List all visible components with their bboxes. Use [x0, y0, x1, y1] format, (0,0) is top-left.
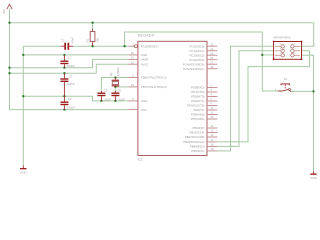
wire +5V vertical rail	[9, 23, 11, 110]
svg-text:PC5(ADC5/SCL): PC5(ADC5/SCL)	[183, 67, 204, 71]
pin number 22	[131, 51, 134, 55]
svg-text:23: 23	[210, 42, 213, 46]
pin name AREF	[141, 58, 149, 62]
pin 1 stub (IC1 PC6(/RESET))	[128, 45, 137, 48]
pin name GND	[141, 53, 148, 57]
capacitor C5	[97, 91, 105, 101]
pin number 16	[210, 133, 213, 137]
pin number 12	[210, 111, 213, 115]
wire ISP pin3 to PB4	[217, 51, 273, 147]
label Q1	[109, 72, 113, 76]
capacitor C6	[111, 91, 119, 101]
svg-text:C1: C1	[67, 56, 71, 60]
pin number 26	[210, 56, 213, 60]
ISP pad 5	[275, 54, 284, 57]
svg-text:GND: GND	[20, 170, 26, 174]
svg-text:R1: R1	[86, 38, 90, 42]
pin 3 stub (IC1 PD1(TXD))	[207, 91, 217, 93]
label C3	[69, 74, 73, 78]
pin 17 stub (IC1 PB3(MOSI/OC2))	[207, 141, 217, 143]
pin name PC4(ADC4/SDA)	[183, 62, 205, 66]
label AVR-ISP-6POL	[273, 36, 291, 40]
value 100nF of C1	[67, 64, 75, 68]
pin name PD7(AIN1)	[191, 117, 205, 121]
crystal Q1	[112, 78, 120, 87]
pin name PC3(ADC3)	[189, 58, 204, 62]
svg-text:PB1(OC1A): PB1(OC1A)	[189, 131, 204, 135]
pin name PC2(ADC2)	[189, 53, 204, 57]
svg-text:18: 18	[210, 143, 213, 147]
svg-text:10k: 10k	[95, 37, 99, 42]
pin name PD2(INT0)	[191, 95, 205, 99]
pin number 2 (ISP)	[294, 44, 296, 46]
wire VCC line to IC1 pin 7	[10, 109, 129, 111]
svg-text:14: 14	[210, 124, 213, 128]
svg-text:47uF: 47uF	[70, 37, 74, 44]
svg-text:4: 4	[210, 93, 212, 97]
value 10k of R1	[95, 37, 99, 42]
svg-text:PB0(ICP): PB0(ICP)	[192, 126, 204, 130]
pin name PB7(XTAL2/TOSC2)	[141, 85, 167, 89]
pin number 14	[210, 124, 213, 128]
ISP pad 4	[291, 49, 300, 52]
svg-text:AREF: AREF	[141, 58, 149, 62]
resistor R1	[90, 28, 95, 46]
pin 12 stub (IC1 PD6(AIN0))	[207, 114, 217, 116]
svg-text:100nF: 100nF	[67, 64, 75, 68]
svg-text:PD1(TXD): PD1(TXD)	[191, 90, 204, 94]
label MEGA8-P	[138, 34, 155, 38]
pin name PC6(/RESET)	[141, 44, 159, 48]
svg-text:PC2(ADC2): PC2(ADC2)	[189, 53, 204, 57]
pin name PC1(ADC1)	[189, 49, 204, 53]
svg-text:27: 27	[210, 60, 213, 64]
pin name PC0(ADC0)	[189, 44, 204, 48]
svg-text:PD0(RXD): PD0(RXD)	[191, 86, 204, 90]
pin number 2	[210, 84, 212, 88]
pin name VCC	[141, 108, 148, 112]
pin name PB3(MOSI/OC2)	[183, 140, 204, 144]
pin number 19	[210, 147, 213, 151]
node C2 bottom on VCC line	[63, 108, 65, 110]
svg-text:GND: GND	[141, 53, 148, 57]
capacitor C2	[60, 96, 68, 109]
svg-text:26: 26	[210, 56, 213, 60]
wire +5V to ISP pin2	[302, 23, 314, 47]
label C5	[104, 88, 108, 92]
pin number 2 (S1)	[291, 89, 293, 93]
pin number 3	[210, 88, 212, 92]
pin 23 stub (IC1 PC0(ADC0))	[207, 45, 217, 47]
label C4	[61, 38, 65, 42]
svg-text:MEGA8-P: MEGA8-P	[138, 34, 155, 38]
svg-text:13: 13	[210, 115, 213, 119]
svg-text:PB7(XTAL2/TOSC2): PB7(XTAL2/TOSC2)	[141, 85, 167, 89]
node reset / ISP pin5	[261, 54, 263, 56]
capacitor C4	[61, 43, 73, 50]
svg-text:GND: GND	[310, 176, 316, 180]
wire reset line C4-to-pin1	[73, 45, 128, 47]
label S1	[284, 77, 288, 81]
svg-text:7: 7	[132, 106, 134, 110]
svg-text:PB5(SCK): PB5(SCK)	[191, 149, 204, 153]
capacitor C3	[60, 73, 68, 96]
pin name PD0(RXD)	[191, 86, 204, 90]
ISP pad 6	[291, 54, 300, 57]
wire +5V top distribution line	[10, 22, 314, 24]
pin name PC5(ADC5/SCL)	[183, 67, 204, 71]
wire GND vertical rail	[22, 46, 24, 165]
pin number 4 (ISP)	[294, 48, 296, 50]
value 100nF of C3	[67, 82, 75, 86]
pin 19 stub (IC1 PB5(SCK))	[207, 150, 217, 152]
pin number 21	[131, 56, 134, 60]
label IC1	[138, 158, 143, 162]
pin number 13	[210, 115, 213, 119]
pin number 6	[210, 102, 212, 106]
value 22pF of C5	[104, 97, 111, 101]
wire GND to IC1 pin 8	[23, 96, 128, 101]
ground symbol GND (bottom right)	[310, 171, 316, 180]
svg-text:AVR-ISP-6POL: AVR-ISP-6POL	[273, 36, 291, 40]
svg-text:2: 2	[291, 89, 293, 93]
wire XTAL2 pin10 to crystal	[115, 86, 128, 88]
pin 10 stub (IC1 PB7(XTAL2/TOSC2))	[128, 86, 138, 88]
pin 24 stub (IC1 PC1(ADC1))	[207, 50, 217, 52]
wire crystal to C6	[114, 87, 116, 91]
wire AVCC line	[10, 64, 129, 73]
label C6	[117, 88, 121, 92]
pin number 20	[131, 60, 134, 64]
value 100nF of C2	[67, 105, 75, 109]
svg-text:PD7(AIN1): PD7(AIN1)	[191, 117, 205, 121]
svg-text:6: 6	[210, 102, 212, 106]
wire S1 pin2 to GND line	[291, 90, 313, 92]
pin number 18	[210, 143, 213, 147]
svg-text:Q1: Q1	[109, 72, 113, 76]
pin 5 stub (IC1 PD3(INT1))	[207, 100, 217, 102]
pin number 7	[132, 106, 134, 110]
value 47uF of C4	[70, 37, 74, 44]
svg-text:PD4(XCK/T0): PD4(XCK/T0)	[187, 104, 204, 108]
svg-text:GND: GND	[141, 99, 148, 103]
svg-text:PD2(INT0): PD2(INT0)	[191, 95, 205, 99]
pin 11 stub (IC1 PD5(T1))	[207, 109, 217, 111]
svg-text:PC6(/RESET): PC6(/RESET)	[141, 44, 159, 48]
node R1 bottom on reset line	[91, 45, 93, 47]
svg-text:PD5(T1): PD5(T1)	[194, 108, 205, 112]
pin number 1	[132, 42, 134, 46]
value 16MHz of Q1	[116, 66, 120, 76]
wire reset line GND-to-C4	[23, 45, 60, 47]
svg-text:C5: C5	[104, 88, 108, 92]
node R1 top on +5V line	[91, 22, 93, 24]
svg-text:20: 20	[131, 60, 134, 64]
node S1 pin2 / GND line	[312, 90, 314, 92]
node C1 bottom	[63, 67, 65, 69]
svg-text:9: 9	[132, 74, 134, 78]
pin number 17	[210, 138, 213, 142]
wire reset to ISP pin5 and S1	[125, 32, 278, 91]
node C3/C2 junction	[63, 95, 65, 97]
svg-text:PD6(AIN0): PD6(AIN0)	[191, 113, 205, 117]
pin number 10	[131, 83, 134, 87]
pin number 8	[132, 97, 134, 101]
node +5V rail / top line	[8, 22, 10, 24]
svg-text:+5V: +5V	[2, 8, 6, 15]
pin number 15	[210, 129, 213, 133]
pin number 11	[210, 106, 213, 110]
svg-text:IC1: IC1	[138, 158, 143, 162]
pin name AVCC	[141, 62, 150, 66]
svg-text:16MHz: 16MHz	[116, 66, 120, 76]
pin 9 stub (IC1 PB6(XTAL1/TOSC1))	[128, 77, 138, 79]
svg-text:PB3(MOSI/OC2): PB3(MOSI/OC2)	[183, 140, 204, 144]
pin 18 stub (IC1 PB4(MISO))	[207, 145, 217, 147]
switch S1 push button	[278, 84, 292, 92]
ISP pad 1	[275, 45, 284, 48]
svg-text:17: 17	[210, 138, 213, 142]
pin 15 stub (IC1 PB1(OC1A))	[207, 132, 217, 134]
pin 28 stub (IC1 PC5(ADC5/SCL))	[207, 68, 217, 70]
svg-text:28: 28	[210, 65, 213, 69]
wire ISP pin6 to GND	[302, 55, 314, 171]
svg-text:PC1(ADC1): PC1(ADC1)	[189, 49, 204, 53]
node C5 bottom on GND line	[100, 100, 102, 102]
svg-text:PC0(ADC0): PC0(ADC0)	[189, 44, 204, 48]
wire AREF line	[10, 59, 129, 67]
svg-text:C3: C3	[69, 74, 73, 78]
svg-text:5: 5	[210, 97, 212, 101]
wire R1 top to +5V	[92, 23, 94, 29]
svg-text:C4: C4	[61, 38, 65, 42]
pin 4 stub (IC1 PD2(INT0))	[207, 96, 217, 98]
svg-text:PC3(ADC3): PC3(ADC3)	[189, 58, 204, 62]
pin 27 stub (IC1 PC4(ADC4/SDA))	[207, 63, 217, 65]
svg-text:22pF: 22pF	[104, 97, 111, 101]
pin number 1 (ISP)	[280, 44, 282, 46]
pin 25 stub (IC1 PC2(ADC2))	[207, 54, 217, 56]
pin 20 stub (IC1 AVCC)	[128, 63, 138, 65]
capacitor C1	[60, 55, 68, 68]
pin 26 stub (IC1 PC3(ADC3))	[207, 59, 217, 61]
ic IC1 MEGA8-P body	[138, 41, 207, 155]
wire GND to IC1 pin 22	[23, 54, 128, 56]
svg-text:3: 3	[210, 88, 212, 92]
pin 16 stub (IC1 PB2(SS/OC1B))	[207, 136, 217, 138]
pin name PD4(XCK/T0)	[187, 104, 204, 108]
node crystal top	[114, 76, 116, 78]
svg-text:PC4(ADC4/SDA): PC4(ADC4/SDA)	[183, 62, 205, 66]
node C3 top	[63, 72, 65, 74]
value 22pF of C6	[118, 97, 125, 101]
svg-text:19: 19	[210, 147, 213, 151]
node GND rail / pin22 line	[22, 54, 24, 56]
pin number 3 (ISP)	[280, 48, 282, 50]
svg-text:15: 15	[210, 129, 213, 133]
label C1	[67, 56, 71, 60]
label C2	[68, 97, 72, 101]
connector SV1 AVR-ISP-6POL body	[273, 41, 303, 61]
pin name PD6(AIN0)	[191, 113, 205, 117]
svg-text:12: 12	[210, 111, 213, 115]
pin number 6 (ISP)	[294, 53, 296, 55]
svg-text:100nF: 100nF	[67, 105, 75, 109]
pin number 27	[210, 60, 213, 64]
pin name PB5(SCK)	[191, 149, 204, 153]
pin name PB0(ICP)	[192, 126, 204, 130]
svg-text:8: 8	[132, 97, 134, 101]
svg-text:10: 10	[131, 83, 134, 87]
svg-text:VCC: VCC	[141, 108, 148, 112]
svg-text:22: 22	[131, 51, 134, 55]
wire ISP pin4 to PB3	[217, 51, 309, 142]
pin name PD5(T1)	[194, 108, 205, 112]
pin number 5	[210, 97, 212, 101]
ground symbol GND (bottom left)	[20, 165, 26, 174]
pin name PD1(TXD)	[191, 90, 204, 94]
svg-text:PB2(SS/OC1B): PB2(SS/OC1B)	[185, 135, 205, 139]
pin name GND	[141, 99, 148, 103]
pin number 25	[210, 51, 213, 55]
node +5V rail / AREF line	[8, 67, 10, 69]
pin name PB6(XTAL1/TOSC1)	[141, 76, 167, 80]
pin 14 stub (IC1 PB0(ICP))	[207, 127, 217, 129]
pin 2 stub (IC1 PD0(RXD))	[207, 87, 217, 89]
pin name PB1(OC1A)	[189, 131, 204, 135]
pin 7 stub (IC1 VCC)	[128, 109, 138, 111]
supply +5V symbol	[2, 4, 12, 23]
wire XTAL1 pin9 to crystal	[101, 77, 128, 79]
pin 8 stub (IC1 GND)	[128, 100, 138, 102]
wire ISP pin5 stub	[262, 54, 273, 56]
pin name PD3(INT1)	[191, 99, 205, 103]
pin 22 stub (IC1 GND)	[128, 54, 138, 56]
svg-text:24: 24	[210, 47, 213, 51]
pin number 23	[210, 42, 213, 46]
node reset line branch	[123, 45, 125, 47]
ISP pad 2	[291, 45, 300, 48]
pin number 4	[210, 93, 212, 97]
svg-text:2: 2	[210, 84, 212, 88]
node C1 top	[63, 54, 65, 56]
label R1	[86, 38, 90, 42]
svg-text:21: 21	[131, 56, 134, 60]
node C6 bottom on GND line	[114, 100, 116, 102]
svg-text:AVCC: AVCC	[141, 62, 150, 66]
svg-text:11: 11	[210, 106, 213, 110]
svg-text:C6: C6	[117, 88, 121, 92]
svg-text:C2: C2	[68, 97, 72, 101]
pin 6 stub (IC1 PD4(XCK/T0))	[207, 105, 217, 107]
svg-text:1: 1	[132, 42, 134, 46]
node +5V rail / AVCC line	[8, 72, 10, 74]
pin 21 stub (IC1 AREF)	[128, 58, 138, 60]
pin name PB2(SS/OC1B)	[185, 135, 205, 139]
pin number 9	[132, 74, 134, 78]
svg-text:S1: S1	[284, 77, 288, 81]
svg-text:22pF: 22pF	[118, 97, 125, 101]
svg-text:16: 16	[210, 133, 213, 137]
node crystal bottom	[114, 86, 116, 88]
svg-text:PB4(MISO): PB4(MISO)	[190, 145, 205, 149]
pin number 24	[210, 47, 213, 51]
svg-text:PB6(XTAL1/TOSC1): PB6(XTAL1/TOSC1)	[141, 76, 167, 80]
pin 13 stub (IC1 PD7(AIN1))	[207, 118, 217, 120]
pin number 28	[210, 65, 213, 69]
svg-text:100nF: 100nF	[67, 82, 75, 86]
wire crystal to C5	[100, 78, 102, 91]
svg-text:25: 25	[210, 51, 213, 55]
node GND rail / pin8 line	[22, 95, 24, 97]
ISP pad 3	[275, 49, 284, 52]
pin name PB4(MISO)	[190, 145, 205, 149]
pin number 1 (S1)	[275, 88, 277, 92]
wire ISP pin1 to PB5	[217, 46, 273, 151]
svg-text:PD3(INT1): PD3(INT1)	[191, 99, 205, 103]
pin number 5 (ISP)	[280, 53, 282, 55]
